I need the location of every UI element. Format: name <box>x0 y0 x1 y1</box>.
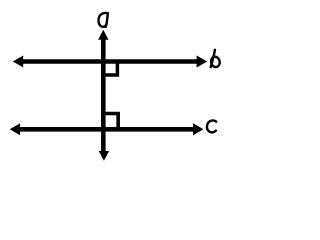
node right-angle marker at a-b intersection <box>103 62 117 76</box>
node arrowhead a top <box>98 30 108 40</box>
wire line b (top horizontal shaft) <box>20 59 199 64</box>
node label a <box>98 13 107 27</box>
node right-angle marker at a-c intersection <box>103 114 118 130</box>
wire line c (bottom horizontal shaft) <box>17 127 196 132</box>
node arrowhead b left <box>13 56 23 68</box>
node arrowhead b right <box>197 56 208 68</box>
node label c <box>207 120 216 132</box>
node arrowhead a bottom <box>99 151 110 161</box>
node label b <box>210 50 221 68</box>
node arrowhead c right <box>193 123 203 135</box>
node arrowhead c left <box>10 123 20 135</box>
wire line a (vertical transversal shaft) <box>101 38 106 152</box>
